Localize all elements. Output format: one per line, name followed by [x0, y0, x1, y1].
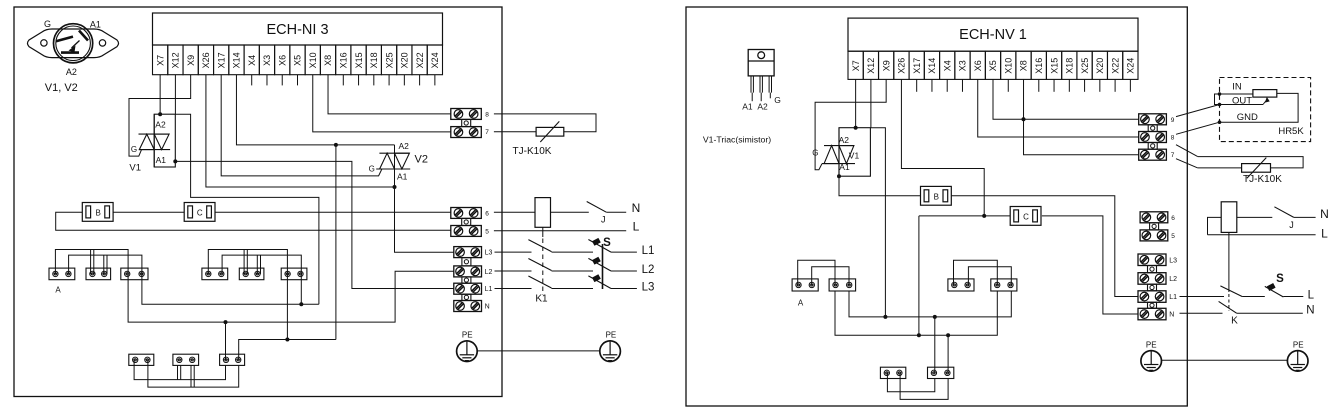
TO-220 package body	[748, 50, 774, 76]
wire K1 pole 2 to S	[552, 270, 594, 272]
svg-text:L3: L3	[642, 281, 655, 293]
svg-text:N: N	[485, 304, 490, 311]
fuse C right	[1010, 207, 1041, 226]
link L3-L2	[462, 258, 471, 266]
wire PE bond right unit	[1162, 359, 1288, 361]
svg-text:V1: V1	[129, 162, 141, 173]
svg-text:V1: V1	[849, 150, 860, 160]
terminal strip cells of ECH-NI 3	[153, 45, 168, 75]
svg-text:X12: X12	[866, 58, 876, 74]
wire fuse C line to bottom bus	[918, 216, 920, 335]
svg-text:7: 7	[485, 129, 489, 136]
PE earth symbol right-b	[1287, 351, 1308, 372]
svg-text:A: A	[798, 298, 804, 307]
wire relay J to switch J right	[1237, 216, 1273, 218]
svg-text:X25: X25	[384, 52, 394, 68]
terminal block 7 right	[1139, 149, 1167, 160]
svg-text:X15: X15	[1049, 58, 1059, 74]
terminal block 7	[451, 127, 482, 138]
svg-text:X14: X14	[232, 52, 242, 68]
terminal block L2 right	[1138, 273, 1166, 285]
wire V1 A2 net to fuse bus	[175, 114, 319, 304]
node V1 A2 junction dot	[158, 112, 162, 116]
svg-text:5: 5	[1171, 233, 1175, 240]
wire block 9 to HR5K OUT	[1176, 105, 1220, 117]
terminal block 8 right	[1139, 132, 1167, 143]
terminal strip cells of ECH-NV 1	[848, 51, 863, 79]
controller block ECH-NV 1	[848, 18, 1138, 51]
svg-text:J: J	[601, 215, 606, 225]
svg-text:X6: X6	[973, 60, 983, 71]
svg-text:X7: X7	[155, 55, 165, 66]
wire X12 down right	[870, 79, 872, 127]
svg-text:X24: X24	[1126, 58, 1136, 74]
svg-text:X7: X7	[851, 60, 861, 71]
wire potentiometer to GND loop	[1220, 93, 1299, 122]
node X8 on block 9 line dot	[1022, 117, 1026, 121]
switch S pole 3 blade	[588, 276, 611, 289]
node X14 net dot	[334, 143, 338, 147]
panel border left unit	[14, 7, 502, 397]
link bottom right s1	[887, 373, 934, 392]
bus 1 over A-blocks right group 2	[954, 260, 998, 285]
link 9-8 right	[1148, 125, 1157, 132]
switch S pole 1 blade	[588, 240, 611, 253]
svg-text:X10: X10	[308, 52, 318, 68]
triac V1 frame box	[154, 114, 175, 167]
wire terminal 5 to L	[494, 230, 626, 232]
svg-text:PE: PE	[462, 331, 473, 340]
triac V1 symbol right	[824, 145, 854, 147]
contactor K1 pole 2 wire	[495, 270, 532, 272]
TO-3 mounting hole right	[99, 40, 105, 46]
junction block rA2	[829, 279, 856, 291]
svg-text:X22: X22	[415, 52, 425, 68]
svg-text:X17: X17	[216, 52, 226, 68]
svg-text:B: B	[96, 208, 101, 217]
wire block 8 to thermistor loop right	[1176, 145, 1198, 157]
junction block rA3	[948, 279, 974, 291]
svg-text:L3: L3	[1169, 257, 1177, 264]
node V1 A1 dot	[173, 159, 177, 163]
terminal block 5 right	[1140, 230, 1168, 241]
terminal block N right	[1138, 308, 1166, 320]
svg-text:V1-Triac(simistor): V1-Triac(simistor)	[703, 135, 771, 145]
node bottom block s1 dot	[933, 315, 937, 319]
junction block rA4	[991, 279, 1017, 291]
svg-text:X10: X10	[1003, 58, 1013, 74]
wire X9 to V1 gate	[129, 75, 191, 156]
svg-text:7: 7	[1171, 152, 1175, 159]
wire L row right top	[1208, 234, 1316, 236]
svg-text:8: 8	[485, 111, 489, 118]
wire X8 to terminal 8	[328, 75, 451, 114]
wire S pole 1 to L1	[611, 251, 637, 253]
switch S pole 1 thermal element	[592, 238, 601, 246]
svg-text:A1: A1	[397, 172, 408, 182]
TO-3 internal die marks	[56, 37, 73, 42]
terminal block L1	[454, 283, 482, 294]
bus 1 over A-blocks right group 1	[798, 260, 835, 285]
svg-text:S: S	[603, 237, 611, 249]
node V2 A1 dot	[393, 185, 397, 189]
wire X10 to terminal 7	[313, 75, 451, 132]
node HR5K OUT dot	[1218, 103, 1222, 107]
svg-text:X18: X18	[1065, 58, 1075, 74]
svg-text:V2: V2	[415, 154, 428, 166]
wire PE bond left unit	[477, 350, 600, 352]
thermistor TJ-K10K right unit	[1242, 164, 1271, 173]
svg-text:V1, V2: V1, V2	[45, 82, 78, 94]
terminal block N left	[454, 301, 482, 312]
svg-text:L1: L1	[1169, 294, 1177, 301]
switch S thermal element right	[1267, 283, 1276, 291]
relay J coil right unit	[1221, 202, 1237, 233]
terminal block L3 right	[1138, 254, 1166, 266]
node V1 A2 dot right	[854, 126, 858, 130]
wire HR5K IN to potentiometer	[1220, 93, 1253, 95]
link L1-N	[462, 294, 471, 300]
junction block A1b	[86, 268, 111, 280]
svg-text:K1: K1	[535, 294, 548, 305]
thermistor TJ-K10K left unit	[536, 127, 564, 136]
junction block A2b	[239, 268, 264, 280]
contactor K pole 1 blade	[1220, 286, 1242, 297]
svg-text:6: 6	[485, 210, 489, 217]
node fuse C line dot	[982, 214, 986, 218]
contactor K1 pole 2 blade	[528, 259, 551, 271]
bus 2 over A-blocks right group 2	[968, 267, 1011, 285]
link bottom s2 chain	[148, 360, 239, 387]
svg-text:S: S	[1276, 273, 1284, 285]
svg-text:L: L	[1308, 289, 1315, 301]
fuse C	[184, 203, 215, 222]
link 8-7 right	[1148, 143, 1157, 150]
svg-text:PE: PE	[1293, 340, 1304, 349]
switch S blade right	[1265, 286, 1284, 297]
junction block rA1	[792, 279, 818, 291]
svg-text:G: G	[774, 95, 781, 105]
svg-text:PE: PE	[1146, 340, 1157, 349]
wire X26 to V2 A1	[206, 75, 395, 187]
wire b3.s2 and b6.s2 to V1 A2 net	[142, 274, 319, 304]
wire fuse B to fuse C	[113, 211, 184, 213]
switch J blade	[587, 202, 607, 213]
svg-text:N: N	[1169, 312, 1174, 319]
triac V1 conductor	[153, 114, 155, 167]
svg-text:X18: X18	[369, 52, 379, 68]
svg-text:OUT: OUT	[1232, 95, 1252, 106]
wire fuse C to terminal 6	[215, 211, 451, 213]
svg-text:N: N	[632, 201, 641, 215]
svg-text:X6: X6	[277, 55, 287, 66]
terminal pin stubs of ECH-NV 1	[916, 79, 918, 91]
wire low bus to bottom right block s2	[947, 335, 949, 373]
wire S pole 2 to L2	[611, 270, 637, 272]
svg-text:X24: X24	[430, 52, 440, 68]
relay J coil left unit	[535, 198, 551, 228]
svg-text:L1: L1	[485, 286, 493, 293]
wire hook from fuse B to bus 5	[56, 212, 451, 230]
switch J blade right	[1274, 207, 1293, 218]
wire X17 to V2 gate	[221, 75, 382, 176]
bus 2 over A-blocks group 2	[222, 255, 301, 274]
junction block A2c	[281, 268, 307, 280]
svg-text:N: N	[1320, 207, 1329, 221]
wire K1 pole 3 to S	[552, 288, 594, 290]
svg-text:X22: X22	[1110, 58, 1120, 74]
terminal block L3	[454, 247, 482, 258]
triac V1 frame box right	[839, 128, 870, 177]
wire thermistor loop top right	[1198, 157, 1303, 168]
PE earth symbol right-a	[1141, 351, 1162, 372]
svg-text:C: C	[1023, 212, 1029, 221]
wire block 8 to HR5K GND	[1176, 122, 1220, 134]
junction block bottom 3	[220, 354, 245, 365]
wire V1 A2 net right	[870, 128, 885, 317]
triac V2 symbol	[379, 152, 409, 154]
svg-text:PE: PE	[606, 331, 617, 340]
wire terminal 8 to thermistor	[494, 114, 596, 132]
panel border right unit	[686, 7, 1187, 406]
wire K pole 1 to S right	[1242, 296, 1265, 298]
svg-text:X12: X12	[171, 52, 181, 68]
terminal block L1 right	[1138, 291, 1166, 303]
terminal pin stubs of ECH-NI 3	[251, 75, 253, 86]
node b9.s1 dot	[224, 320, 228, 324]
TO-3 package V1 V2 (can outline)	[28, 29, 119, 58]
wire X8 to block 7 right	[1024, 79, 1139, 154]
junction block A1a	[49, 268, 75, 280]
PE earth symbol left-b	[600, 341, 621, 362]
svg-text:L2: L2	[1169, 276, 1177, 283]
HR5K IN-OUT link hook	[1215, 94, 1220, 105]
triac V1 symbol	[139, 133, 169, 135]
svg-text:A2: A2	[757, 102, 768, 112]
contactor K1 pole 3 blade	[528, 276, 551, 288]
node b6.s2 dot	[299, 302, 303, 306]
PE earth symbol left-a	[457, 341, 478, 362]
wire K1 pole 1 to S	[552, 251, 594, 253]
svg-text:A2: A2	[399, 141, 410, 151]
svg-text:X9: X9	[881, 60, 891, 71]
wire rA2.s2 to rA4.s2 mid bus	[849, 291, 1011, 317]
svg-text:HR5K: HR5K	[1278, 126, 1304, 137]
wire X7 to V1 A2 right	[855, 79, 857, 127]
junction block A1c	[121, 268, 148, 280]
terminal block 5	[451, 226, 482, 237]
svg-text:A1: A1	[90, 19, 101, 29]
wire K pole 2 to N right	[1237, 312, 1303, 314]
wire terminal 6 to relay J	[494, 211, 535, 213]
junction block bottom right 2	[928, 367, 954, 378]
terminal block 9 right	[1139, 114, 1167, 125]
svg-text:A: A	[55, 285, 61, 294]
wire fuse C to N block right	[1042, 216, 1138, 314]
svg-text:A1: A1	[839, 162, 850, 172]
svg-text:C: C	[197, 208, 203, 217]
svg-text:G: G	[131, 145, 137, 154]
svg-text:X4: X4	[247, 55, 257, 66]
switch S pole 2 blade	[588, 258, 611, 271]
terminal block 6	[451, 208, 482, 219]
svg-text:A2: A2	[839, 135, 850, 145]
svg-text:TJ-K10K: TJ-K10K	[1243, 174, 1282, 185]
svg-text:ECH-NV 1: ECH-NV 1	[959, 27, 1027, 43]
fuse B right	[921, 186, 952, 205]
svg-text:N: N	[1306, 305, 1314, 317]
wire N block to contactor K right	[1180, 312, 1223, 314]
svg-text:X3: X3	[958, 60, 968, 71]
contactor K1 pole 1 wire	[495, 251, 532, 253]
wire L1 block to contactor K	[1180, 296, 1225, 298]
node b6.s1 dot	[285, 338, 289, 342]
link bottom s1 chain	[134, 360, 225, 380]
link 6-5 right	[1150, 223, 1159, 230]
svg-text:IN: IN	[1232, 82, 1242, 93]
svg-text:8: 8	[1171, 135, 1175, 142]
svg-text:X8: X8	[323, 55, 333, 66]
wire mid bus to bottom right block s1	[934, 317, 936, 373]
svg-text:K: K	[1231, 316, 1238, 327]
TO-3 can circle	[54, 24, 93, 63]
terminal block 8	[451, 109, 482, 120]
svg-text:L2: L2	[485, 269, 493, 276]
link L3-L2 right	[1148, 266, 1157, 273]
TO-220 pins	[750, 76, 752, 93]
switch S pole 3 thermal element	[592, 274, 601, 282]
node V1 A1 dot right	[837, 174, 841, 178]
svg-text:L3: L3	[485, 250, 493, 257]
wire X9 to V1 gate right	[815, 79, 886, 169]
bus 2 over A-blocks right group 1	[812, 267, 849, 285]
node HR5K GND dot	[1218, 120, 1222, 124]
link 8-7	[462, 119, 471, 126]
wire S to L right	[1283, 296, 1303, 298]
link 6-5	[462, 218, 471, 225]
svg-text:L: L	[1321, 227, 1328, 241]
svg-text:X25: X25	[1080, 58, 1090, 74]
wire X14 net vertical	[335, 145, 337, 340]
contactor K1 pole 3 wire	[495, 288, 532, 290]
svg-text:A2: A2	[155, 119, 166, 129]
wire S pole 3 to L3	[611, 288, 637, 290]
wire b3.s1 b9.s1 to L2 terminal	[128, 271, 454, 322]
triac V1 conductor right	[838, 128, 840, 177]
svg-text:6: 6	[1171, 215, 1175, 222]
svg-text:A1: A1	[742, 102, 753, 112]
relay J actuator dashed link	[542, 227, 544, 237]
HR5K dashed enclosure	[1220, 78, 1311, 142]
node bottom bus dot 918	[917, 333, 921, 337]
wire rA2.s1 to rA4.s1 low bus	[835, 291, 997, 335]
node HR5K IN dot	[1218, 92, 1222, 96]
link L1-N right	[1148, 302, 1157, 308]
wire terminal 7 to thermistor	[494, 131, 536, 133]
svg-text:X16: X16	[1034, 58, 1044, 74]
junction block bottom 1	[129, 354, 154, 365]
svg-text:B: B	[934, 192, 939, 201]
svg-text:A2: A2	[66, 67, 77, 77]
relay J actuator link right	[1228, 232, 1230, 292]
contactor K1 pole 1 blade	[528, 240, 551, 252]
bus 1 over A-blocks group 1	[55, 250, 128, 274]
svg-text:G: G	[369, 164, 375, 173]
svg-text:5: 5	[485, 228, 489, 235]
svg-text:X9: X9	[186, 55, 196, 66]
svg-text:L: L	[633, 219, 640, 233]
svg-text:9: 9	[1171, 117, 1175, 124]
wire switch J to N	[606, 211, 626, 213]
fuse B	[82, 203, 113, 222]
TO-3 mounting hole left	[41, 40, 47, 46]
bus 2 over A-blocks group 1	[69, 255, 142, 274]
wire V1 A1 to L1 terminal	[175, 161, 454, 288]
wire X5 to block 9 right	[993, 79, 1139, 119]
junction block bottom right 1	[880, 367, 905, 378]
link L2-L1 right	[1148, 284, 1157, 291]
svg-text:L2: L2	[642, 264, 655, 276]
wire HR5K OUT wiper	[1220, 104, 1264, 106]
wire X7 to V1 A2	[159, 75, 161, 115]
node bottom block s2 dot	[946, 333, 950, 337]
svg-text:X5: X5	[293, 55, 303, 66]
bus 1 over A-blocks group 2	[208, 250, 287, 274]
svg-text:X26: X26	[897, 58, 907, 74]
wire b9.s2 b6.s1 to X14 net	[239, 340, 336, 360]
node A2 net end dot	[883, 315, 887, 319]
wire X14 to V2 A2	[236, 75, 394, 145]
junction block A2a	[202, 268, 228, 280]
contactor K pole 2 blade	[1219, 301, 1237, 313]
svg-text:X8: X8	[1019, 60, 1029, 71]
wire X26 to fuse C right	[901, 79, 984, 216]
TO-220 mounting hole	[758, 52, 765, 59]
svg-text:J: J	[1289, 220, 1294, 230]
svg-text:X15: X15	[354, 52, 364, 68]
svg-text:X16: X16	[338, 52, 348, 68]
svg-text:ECH-NI 3: ECH-NI 3	[266, 22, 328, 38]
wire switch J to N right	[1294, 216, 1316, 218]
svg-text:GND: GND	[1237, 112, 1258, 123]
potentiometer HR5K	[1253, 90, 1277, 98]
svg-text:TJ-K10K: TJ-K10K	[513, 146, 552, 157]
wire X12 down to V1 frame	[174, 75, 176, 115]
svg-text:A1: A1	[156, 155, 167, 165]
junction block bottom 2	[173, 354, 199, 365]
svg-text:X3: X3	[262, 55, 272, 66]
svg-text:X17: X17	[912, 58, 922, 74]
link L2-L1	[462, 277, 471, 283]
svg-text:X20: X20	[1095, 58, 1105, 74]
switch S mechanical link	[602, 244, 604, 289]
switch S pole 2 thermal element	[592, 257, 601, 265]
svg-text:X20: X20	[400, 52, 410, 68]
wire r2.s1 net to fuse C	[919, 215, 1010, 217]
wire relay J to switch J	[551, 211, 589, 213]
terminal block 6 right	[1140, 212, 1168, 223]
wire fuse B to L1 block right	[952, 196, 1139, 297]
link bottom right s2	[900, 373, 948, 400]
wire X6 to block 8 right	[978, 79, 1139, 137]
wire relay J left hook to L	[1208, 217, 1222, 234]
svg-text:X14: X14	[927, 58, 937, 74]
svg-text:X26: X26	[201, 52, 211, 68]
svg-text:X5: X5	[988, 60, 998, 71]
wire V1 A1 to fuse B right	[839, 176, 921, 196]
svg-text:L1: L1	[642, 245, 655, 257]
terminal block L2	[454, 266, 482, 277]
